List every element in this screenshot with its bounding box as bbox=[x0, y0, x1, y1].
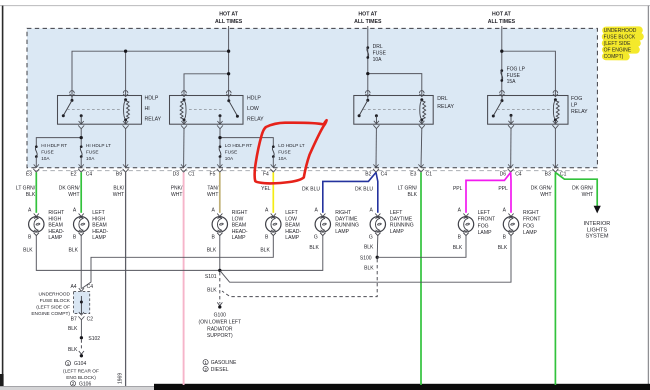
svg-text:C4: C4 bbox=[515, 172, 522, 178]
svg-text:10A: 10A bbox=[225, 156, 234, 161]
svg-text:LOW: LOW bbox=[247, 106, 259, 112]
svg-text:FOG LP: FOG LP bbox=[507, 66, 526, 72]
wire DK BLU to left daytime running lamp bbox=[376, 172, 378, 212]
svg-text:LAMP: LAMP bbox=[335, 229, 349, 235]
svg-text:ENGINE COMPT): ENGINE COMPT) bbox=[31, 311, 70, 317]
svg-text:HDLP: HDLP bbox=[145, 95, 159, 101]
wire FOG coil feed bbox=[502, 51, 556, 95]
wire LOW coil return to pin D3 bbox=[183, 129, 185, 167]
svg-text:HOT AT: HOT AT bbox=[358, 12, 378, 18]
wire DK GRN/WHT from pin B3/C1 down bbox=[554, 172, 556, 385]
svg-text:DRL: DRL bbox=[437, 96, 447, 102]
svg-text:HIGH: HIGH bbox=[48, 216, 61, 222]
wire DK GRN/WHT to left high beam bbox=[80, 172, 82, 212]
svg-text:PPL: PPL bbox=[453, 186, 463, 192]
wire feed3 vertical bbox=[501, 26, 503, 95]
wire FOG coil return to pin B3 bbox=[554, 129, 556, 168]
svg-text:RUNNING: RUNNING bbox=[335, 223, 359, 229]
wire left low beam ground to fuse block bbox=[82, 236, 274, 289]
svg-text:FRONT: FRONT bbox=[523, 217, 541, 223]
fuse FOG LP FUSE 15A bbox=[500, 69, 503, 82]
scan bottom grey strip bbox=[0, 386, 155, 390]
scan left bottom blob bbox=[0, 374, 4, 386]
fuse LO HDLP LT FUSE 10A bbox=[272, 145, 275, 158]
svg-text:LAMP: LAMP bbox=[48, 235, 62, 241]
wire DK GRN/WHT branch to interior lights bbox=[555, 172, 597, 206]
node junction bus1/HI coil bbox=[124, 50, 127, 53]
svg-text:G100: G100 bbox=[214, 313, 226, 319]
wire feed2 vertical bbox=[367, 26, 369, 95]
svg-text:C4: C4 bbox=[87, 284, 94, 290]
relay U2 HDLP LOW RELAY bbox=[170, 91, 265, 129]
svg-text:LT GRN/: LT GRN/ bbox=[16, 186, 36, 192]
wire right front fog ground bus to S101 bbox=[220, 236, 511, 283]
svg-text:FOG: FOG bbox=[571, 96, 582, 102]
svg-text:COMPT): COMPT) bbox=[604, 54, 624, 60]
pin B9 bbox=[123, 164, 129, 172]
lamp LEFT HIGH BEAM HEADLAMP bbox=[74, 214, 89, 236]
wire YEL to left low beam bbox=[272, 172, 274, 212]
wire LO LT fuse to pin F4 bbox=[272, 157, 274, 168]
scan top edge line bbox=[0, 5, 650, 7]
wire PPL to right front fog lamp bbox=[510, 172, 512, 212]
wire HI LT fuse to pin E2 bbox=[80, 157, 82, 168]
pin E2/C4 bbox=[78, 164, 84, 172]
svg-text:RADIATOR: RADIATOR bbox=[207, 326, 233, 332]
note underhood fuse block highlight bbox=[606, 30, 640, 56]
scan bottom black bar bbox=[154, 384, 650, 390]
wire DK BLU to right daytime running lamp bbox=[323, 172, 376, 212]
svg-text:A4: A4 bbox=[70, 284, 76, 290]
fuse LO HDLP RT FUSE 10A bbox=[219, 145, 222, 158]
svg-text:WHT: WHT bbox=[171, 192, 182, 198]
node junction feed2/DRL coil branch bbox=[366, 72, 369, 75]
svg-text:B7: B7 bbox=[71, 316, 77, 322]
svg-text:BEAM: BEAM bbox=[48, 223, 62, 229]
svg-text:PNK/: PNK/ bbox=[171, 186, 183, 192]
node S100 bbox=[376, 256, 379, 259]
svg-text:S100: S100 bbox=[360, 255, 372, 261]
wire right high beam ground to S101 bus bbox=[36, 236, 220, 271]
svg-text:B9: B9 bbox=[116, 172, 122, 178]
node S102 bbox=[80, 336, 83, 339]
svg-text:DK GRN/: DK GRN/ bbox=[531, 186, 552, 192]
wire S100 dashed ground to G100 bbox=[222, 259, 377, 297]
svg-text:HI HDLP LT: HI HDLP LT bbox=[86, 143, 111, 148]
svg-text:BLK: BLK bbox=[498, 245, 508, 251]
wire LOW switch output to fuses bbox=[220, 129, 273, 147]
svg-text:LAMP: LAMP bbox=[478, 230, 492, 236]
wire bus to HDLP HI relay bbox=[72, 51, 229, 95]
svg-text:(LEFT REAR OF: (LEFT REAR OF bbox=[63, 368, 99, 374]
fuse DRL FUSE 10A bbox=[366, 46, 369, 59]
node junction feed1/bus2 bbox=[227, 72, 230, 75]
pin E3 bbox=[33, 164, 39, 172]
wire bus to HDLP LOW relay coil bbox=[184, 74, 229, 96]
svg-text:S101: S101 bbox=[205, 274, 217, 280]
relay U1 HDLP HI RELAY bbox=[58, 91, 162, 129]
wire left front fog ground to S100 bbox=[377, 236, 466, 258]
svg-text:SUPPORT): SUPPORT) bbox=[207, 333, 233, 339]
svg-text:RELAY: RELAY bbox=[437, 104, 454, 110]
svg-text:DK GRN/: DK GRN/ bbox=[572, 186, 593, 192]
svg-text:BLK/: BLK/ bbox=[113, 186, 124, 192]
node legend gasoline/diesel bbox=[203, 360, 237, 373]
svg-text:G: G bbox=[369, 235, 373, 241]
svg-text:BEAM: BEAM bbox=[232, 223, 246, 229]
svg-text:D3: D3 bbox=[173, 172, 180, 178]
svg-text:C4: C4 bbox=[381, 172, 388, 178]
wire DRL switch output to pin B2 bbox=[375, 129, 377, 168]
svg-text:SYSTEM: SYSTEM bbox=[585, 234, 608, 240]
svg-text:2: 2 bbox=[72, 381, 75, 386]
lamp LEFT LOW BEAM HEADLAMP bbox=[266, 214, 281, 236]
pin D3/C1 bbox=[181, 164, 187, 172]
node junction feed3/FOG coil branch bbox=[500, 50, 503, 53]
pin B7/C2 bbox=[78, 312, 84, 320]
svg-text:D6: D6 bbox=[500, 172, 507, 178]
pin F4 bbox=[270, 164, 276, 172]
pin E3/C1 (DRL) bbox=[418, 164, 424, 172]
svg-text:PPL: PPL bbox=[498, 186, 508, 192]
wire feed1 vertical bbox=[228, 26, 230, 95]
svg-text:WHT: WHT bbox=[68, 192, 79, 198]
svg-text:WHT: WHT bbox=[207, 192, 218, 198]
svg-text:(LEFT SIDE: (LEFT SIDE bbox=[604, 41, 632, 47]
wire FOG switch output to pin D6 bbox=[510, 129, 512, 168]
svg-text:HIGH: HIGH bbox=[92, 216, 105, 222]
svg-text:F5: F5 bbox=[210, 172, 216, 178]
svg-text:10A: 10A bbox=[86, 156, 95, 161]
svg-text:LEFT: LEFT bbox=[285, 210, 297, 216]
svg-text:2: 2 bbox=[204, 367, 207, 372]
svg-text:FUSE: FUSE bbox=[225, 150, 238, 155]
svg-text:RIGHT: RIGHT bbox=[523, 210, 539, 216]
wire S101 dashed ground to G100 bbox=[219, 272, 221, 303]
svg-text:BLK: BLK bbox=[69, 248, 79, 254]
svg-text:BLK: BLK bbox=[207, 287, 217, 293]
underhood fuse block (blue box) bbox=[27, 28, 597, 167]
svg-text:10A: 10A bbox=[41, 156, 50, 161]
svg-text:FUSE: FUSE bbox=[86, 150, 99, 155]
svg-text:LEFT: LEFT bbox=[478, 210, 490, 216]
svg-text:YEL: YEL bbox=[261, 186, 271, 192]
svg-text:15A: 15A bbox=[507, 79, 517, 85]
svg-text:(ON LOWER LEFT: (ON LOWER LEFT bbox=[199, 320, 242, 326]
svg-text:LOW: LOW bbox=[285, 216, 297, 222]
svg-text:LAMP: LAMP bbox=[285, 235, 299, 241]
svg-text:BLK: BLK bbox=[408, 192, 418, 198]
svg-text:HOT AT: HOT AT bbox=[219, 12, 239, 18]
svg-text:LO HDLP RT: LO HDLP RT bbox=[225, 143, 253, 148]
svg-text:C2: C2 bbox=[87, 316, 94, 322]
svg-text:E2: E2 bbox=[70, 172, 76, 178]
svg-text:G106: G106 bbox=[79, 381, 91, 387]
relay U3 DRL RELAY bbox=[354, 91, 455, 129]
svg-text:BEAM: BEAM bbox=[92, 223, 106, 229]
svg-text:RELAY: RELAY bbox=[571, 109, 588, 115]
svg-text:WHT: WHT bbox=[113, 192, 124, 198]
component underhood fuse block (lower) bbox=[74, 288, 90, 313]
wire LT GRN/BLK from pin E3/C1 down bbox=[420, 172, 422, 385]
svg-text:FUSE BLOCK: FUSE BLOCK bbox=[40, 298, 71, 304]
svg-text:B2: B2 bbox=[365, 172, 371, 178]
svg-text:DAYTIME: DAYTIME bbox=[390, 216, 413, 222]
svg-text:1: 1 bbox=[67, 361, 70, 366]
svg-text:10A: 10A bbox=[373, 57, 383, 63]
svg-text:G104: G104 bbox=[74, 361, 86, 367]
svg-text:ALL TIMES: ALL TIMES bbox=[354, 19, 382, 25]
svg-text:TAN/: TAN/ bbox=[207, 186, 219, 192]
svg-text:C4: C4 bbox=[86, 172, 93, 178]
svg-text:RELAY: RELAY bbox=[247, 116, 264, 122]
svg-text:BLK: BLK bbox=[453, 245, 463, 251]
svg-text:HEAD-: HEAD- bbox=[232, 229, 248, 235]
svg-text:FOG: FOG bbox=[478, 223, 489, 229]
wire left DRL ground to S100 bbox=[376, 236, 379, 258]
svg-text:FUSE: FUSE bbox=[278, 150, 291, 155]
wire HI switch output to fuses bbox=[36, 129, 81, 147]
svg-text:HEAD-: HEAD- bbox=[48, 229, 64, 235]
svg-text:LP: LP bbox=[571, 102, 578, 108]
svg-text:HEAD-: HEAD- bbox=[285, 229, 301, 235]
svg-text:RIGHT: RIGHT bbox=[232, 210, 248, 216]
node arrow to interior lights system bbox=[594, 206, 601, 214]
svg-text:BLK: BLK bbox=[23, 248, 33, 254]
svg-text:HDLP: HDLP bbox=[247, 95, 261, 101]
lamp RIGHT HIGH BEAM HEADLAMP bbox=[29, 214, 44, 236]
svg-text:B3: B3 bbox=[545, 172, 551, 178]
relay U4 FOG LP RELAY bbox=[488, 91, 589, 129]
svg-text:ALL TIMES: ALL TIMES bbox=[215, 19, 243, 25]
svg-text:DK BLU: DK BLU bbox=[302, 187, 320, 193]
node HOT AT ALL TIMES feed 2 bbox=[354, 12, 382, 26]
svg-text:1: 1 bbox=[204, 360, 207, 365]
svg-text:LAMP: LAMP bbox=[232, 235, 246, 241]
svg-text:BLK: BLK bbox=[309, 245, 319, 251]
wire HI coil return to pin B9 bbox=[125, 129, 127, 167]
svg-text:G: G bbox=[314, 235, 318, 241]
svg-text:ENG BLOCK): ENG BLOCK) bbox=[66, 375, 96, 381]
svg-text:BLK: BLK bbox=[364, 245, 374, 251]
node G100 arrow bbox=[217, 302, 222, 305]
svg-text:E3: E3 bbox=[26, 172, 32, 178]
svg-text:UNDERHOOD: UNDERHOOD bbox=[604, 28, 637, 34]
svg-text:LEFT: LEFT bbox=[390, 210, 402, 216]
svg-text:FUSE: FUSE bbox=[41, 150, 54, 155]
svg-text:S102: S102 bbox=[88, 336, 100, 342]
wire BLK/WHT from pin B9 down bbox=[125, 172, 127, 386]
svg-text:DIESEL: DIESEL bbox=[211, 367, 229, 373]
wire S102 to G104 bbox=[80, 340, 82, 351]
svg-text:ALL TIMES: ALL TIMES bbox=[488, 19, 516, 25]
lamp RIGHT DAYTIME RUNNING LAMP bbox=[315, 214, 330, 236]
svg-text:BLK: BLK bbox=[207, 248, 217, 254]
svg-text:HI: HI bbox=[145, 106, 150, 112]
pin D6/C4 bbox=[508, 164, 514, 172]
scan left edge line bbox=[2, 6, 4, 386]
svg-text:RIGHT: RIGHT bbox=[48, 210, 64, 216]
svg-text:WHT: WHT bbox=[582, 192, 593, 198]
svg-text:LIGHTS: LIGHTS bbox=[587, 227, 607, 233]
wire left high beam ground to fuse block bbox=[80, 236, 82, 289]
svg-text:LOW: LOW bbox=[232, 216, 244, 222]
lamp LEFT DAYTIME RUNNING LAMP bbox=[370, 214, 385, 236]
svg-text:FOG: FOG bbox=[523, 223, 534, 229]
svg-text:FUSE: FUSE bbox=[373, 50, 387, 56]
wire fuse block to S102 bbox=[80, 320, 82, 338]
wire PNK/WHT from pin D3 down bbox=[183, 172, 185, 385]
node G104 ground bbox=[79, 351, 84, 354]
svg-text:LAMP: LAMP bbox=[523, 230, 537, 236]
fuse HI HDLP LT FUSE 10A bbox=[80, 145, 83, 158]
svg-text:RELAY: RELAY bbox=[145, 116, 162, 122]
svg-text:LO HDLP LT: LO HDLP LT bbox=[278, 143, 305, 148]
wire TAN/WHT to right low beam bbox=[219, 172, 221, 212]
svg-text:OF ENGINE: OF ENGINE bbox=[604, 47, 632, 53]
svg-text:DK BLU: DK BLU bbox=[355, 187, 373, 193]
wire LT GRN/BLK to right high beam bbox=[35, 172, 37, 212]
lamp RIGHT FRONT FOG LAMP bbox=[503, 214, 518, 236]
svg-text:WHT: WHT bbox=[540, 192, 551, 198]
svg-text:C1: C1 bbox=[188, 172, 195, 178]
scan right edge line bbox=[647, 6, 649, 385]
node junction HI fuse bus bbox=[80, 136, 83, 139]
svg-text:RUNNING: RUNNING bbox=[390, 223, 414, 229]
pin F5 bbox=[217, 164, 223, 172]
svg-text:DRL: DRL bbox=[373, 44, 383, 50]
svg-text:BLK: BLK bbox=[68, 347, 78, 353]
wire right low beam ground to S101 bbox=[219, 236, 221, 271]
connector row light dashed line bbox=[27, 170, 597, 172]
svg-text:BLK: BLK bbox=[68, 326, 78, 332]
svg-text:LAMP: LAMP bbox=[390, 229, 404, 235]
svg-text:BLK: BLK bbox=[26, 192, 36, 198]
node junction LOW fuse bus bbox=[218, 136, 221, 139]
fuse HI HDLP RT FUSE 10A bbox=[35, 145, 38, 158]
node HOT AT ALL TIMES feed 1 bbox=[215, 12, 243, 26]
svg-text:HEAD-: HEAD- bbox=[92, 229, 108, 235]
svg-text:BEAM: BEAM bbox=[285, 223, 299, 229]
wire DRL coil return to pin E3/C1 bbox=[420, 129, 423, 168]
svg-text:HOT AT: HOT AT bbox=[492, 12, 512, 18]
svg-text:BLK: BLK bbox=[364, 265, 374, 271]
svg-text:FUSE BLOCK: FUSE BLOCK bbox=[604, 35, 636, 41]
pin B2/C4 bbox=[373, 164, 379, 172]
svg-text:DK GRN/: DK GRN/ bbox=[59, 186, 80, 192]
svg-text:UNDERHOOD: UNDERHOOD bbox=[39, 291, 71, 297]
svg-text:10A: 10A bbox=[278, 156, 287, 161]
lamp LEFT FRONT FOG LAMP bbox=[458, 214, 473, 236]
svg-text:FRONT: FRONT bbox=[478, 217, 496, 223]
svg-text:LAMP: LAMP bbox=[92, 235, 106, 241]
svg-text:1969: 1969 bbox=[118, 373, 124, 384]
svg-text:DAYTIME: DAYTIME bbox=[335, 216, 358, 222]
node HOT AT ALL TIMES feed 3 bbox=[488, 12, 516, 26]
wire HI RT fuse to pin E3 bbox=[35, 157, 37, 168]
svg-text:RIGHT: RIGHT bbox=[335, 210, 351, 216]
wire LO RT fuse to pin F5 bbox=[219, 157, 221, 168]
svg-text:GASOLINE: GASOLINE bbox=[211, 360, 237, 366]
node junction feed1/bus1 bbox=[227, 50, 230, 53]
note red annotation circle around LO HDLP LT fuse bbox=[255, 120, 327, 183]
lamp RIGHT LOW BEAM HEADLAMP bbox=[212, 214, 227, 236]
pin B3/C1 bbox=[552, 164, 558, 172]
wire right DRL ground to S101 bus bbox=[220, 236, 323, 271]
wire DRL coil feed bbox=[368, 74, 422, 96]
svg-text:F4: F4 bbox=[263, 172, 269, 178]
node S101 bbox=[218, 269, 221, 272]
wire PPL to left front fog lamp bbox=[466, 172, 511, 212]
svg-text:BLK: BLK bbox=[260, 248, 270, 254]
svg-text:LT GRN/: LT GRN/ bbox=[398, 186, 418, 192]
svg-text:LEFT: LEFT bbox=[92, 210, 104, 216]
svg-text:HI HDLP RT: HI HDLP RT bbox=[41, 143, 67, 148]
svg-text:C1: C1 bbox=[426, 172, 433, 178]
svg-text:(LEFT SIDE OF: (LEFT SIDE OF bbox=[36, 304, 70, 310]
svg-text:INTERIOR: INTERIOR bbox=[584, 221, 611, 227]
svg-text:E3: E3 bbox=[410, 172, 416, 178]
